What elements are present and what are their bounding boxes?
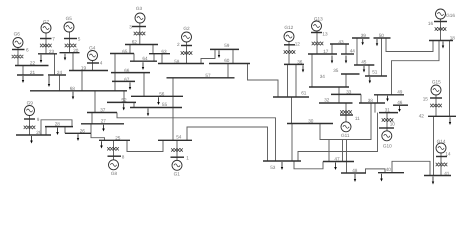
wire line 38-31 <box>374 103 376 113</box>
generator G8 <box>109 160 119 176</box>
generator G16 <box>436 9 456 19</box>
svg-text:68: 68 <box>70 86 76 91</box>
wire line 18-50 <box>386 38 433 52</box>
svg-text:37: 37 <box>100 108 106 113</box>
svg-text:20: 20 <box>73 48 79 53</box>
svg-text:11: 11 <box>355 116 360 121</box>
generator G11 <box>341 122 351 138</box>
load arrow bus 64 <box>142 62 144 70</box>
bus 20 <box>60 52 80 54</box>
svg-text:67: 67 <box>124 77 130 82</box>
wire line 59-58 <box>201 49 215 63</box>
wire line 59-60 <box>232 49 234 63</box>
bus 68 <box>30 90 127 92</box>
bus 1 <box>171 156 185 158</box>
generator G3 <box>135 6 145 23</box>
load arrow bus 17 <box>331 56 333 64</box>
svg-text:66: 66 <box>124 68 130 73</box>
svg-text:40: 40 <box>386 167 392 172</box>
transformer T10 <box>382 118 394 121</box>
load arrow bus 50 <box>376 39 378 46</box>
bus 46 <box>393 104 408 106</box>
bus 65 <box>110 53 134 55</box>
generator G7 <box>41 20 51 34</box>
svg-text:63: 63 <box>161 49 167 54</box>
load arrow bus 55 <box>147 109 149 117</box>
svg-text:28: 28 <box>55 121 61 126</box>
generator G12 <box>284 25 294 42</box>
svg-text:43: 43 <box>338 39 344 44</box>
wire gen G3 stem <box>139 23 141 45</box>
svg-text:7: 7 <box>52 37 55 42</box>
wire line 60-57 <box>227 64 229 78</box>
svg-text:26: 26 <box>80 128 86 133</box>
svg-text:53: 53 <box>270 165 276 170</box>
wire line 35-34 <box>345 74 347 87</box>
bus 13 <box>311 32 322 34</box>
load arrow bus 21 <box>22 76 24 83</box>
svg-text:15: 15 <box>423 97 429 102</box>
wire line 57-56-55-54 <box>172 78 174 141</box>
bus 23 <box>38 53 57 55</box>
bus 41 <box>424 175 451 177</box>
bus 30 <box>287 123 333 125</box>
bus 11 <box>340 114 353 116</box>
wire line 62-63 <box>152 45 154 54</box>
wire line 30-53 <box>291 124 293 162</box>
bus 3 <box>132 26 146 28</box>
bus 50 <box>374 37 391 39</box>
bus 60 <box>209 63 250 65</box>
wire gen G13 stem <box>316 31 318 54</box>
bus 66 <box>111 72 150 74</box>
svg-text:50: 50 <box>379 33 385 38</box>
load arrow bus 39 <box>361 39 364 45</box>
svg-text:G9: G9 <box>27 100 34 105</box>
load arrow bus 49 <box>386 96 389 102</box>
transformer T1 <box>171 148 183 151</box>
svg-text:G12: G12 <box>284 25 293 30</box>
bus 5 <box>64 38 77 40</box>
load arrow bus 48 <box>354 174 356 182</box>
svg-text:45: 45 <box>361 59 367 64</box>
bus 54 <box>158 139 192 141</box>
wire line 23-24 <box>54 54 56 75</box>
bus 4 <box>87 62 99 64</box>
generator G10 <box>382 131 392 149</box>
svg-text:16: 16 <box>428 21 434 26</box>
wire line loop-48 <box>346 140 348 174</box>
svg-text:34: 34 <box>320 74 326 79</box>
load arrow bus 52 <box>123 103 126 110</box>
bus 67 <box>112 80 135 82</box>
wire gen G9 stem <box>29 116 31 136</box>
svg-text:18: 18 <box>450 36 456 41</box>
wire line 20-19 <box>72 53 74 71</box>
svg-text:39: 39 <box>361 33 367 38</box>
wire line 22-21 <box>22 66 24 76</box>
load arrow bus 20 <box>64 54 66 61</box>
svg-text:31: 31 <box>385 108 391 113</box>
svg-text:4: 4 <box>100 61 103 66</box>
wire line 25-54 <box>127 140 163 151</box>
svg-text:G15: G15 <box>432 80 441 85</box>
wire line 52-55 <box>133 102 135 107</box>
bus 25 <box>99 139 130 141</box>
bus 44 <box>341 53 354 55</box>
bus 53 <box>263 160 301 162</box>
bus 49 <box>374 94 404 96</box>
wire line 53-47 <box>294 161 323 169</box>
load arrow bus 56 <box>157 97 160 105</box>
svg-text:48: 48 <box>352 168 358 173</box>
wire line 24-68 <box>59 75 61 91</box>
transformer T6 <box>12 55 24 58</box>
wire line 29-28 <box>41 120 72 135</box>
wire line 49-38 <box>377 95 379 103</box>
wire line 37-53 <box>117 113 276 162</box>
bus 22 <box>15 65 49 67</box>
load arrow bus 24 <box>48 76 50 87</box>
bus 37 <box>87 112 117 114</box>
wire line 43-17 <box>331 44 333 54</box>
bus 55 <box>130 107 182 109</box>
svg-text:1: 1 <box>186 155 189 160</box>
load arrow bus 36 <box>302 65 304 72</box>
wire line 31-53 <box>298 113 378 161</box>
bus 12 <box>284 44 295 46</box>
svg-text:G2: G2 <box>183 26 190 31</box>
svg-text:G7: G7 <box>43 20 50 25</box>
bus 8 <box>108 155 122 157</box>
load arrow bus 44 <box>345 56 347 64</box>
bus 6 <box>12 49 25 51</box>
svg-text:51: 51 <box>372 69 378 74</box>
wire gen G16 stem <box>440 19 442 41</box>
svg-text:64: 64 <box>142 56 148 61</box>
svg-text:6: 6 <box>26 47 29 52</box>
wire gen G8 stem <box>113 140 115 160</box>
svg-text:25: 25 <box>115 135 121 140</box>
wire line 30-38 loop <box>320 103 371 140</box>
svg-text:G14: G14 <box>437 139 446 144</box>
wire line 19-68 <box>81 71 83 91</box>
wire line 28-29 <box>45 127 47 135</box>
transformer T11 <box>340 110 352 113</box>
svg-text:59: 59 <box>224 43 230 48</box>
wire line 54-53 <box>187 127 268 161</box>
bus 45 <box>354 64 374 66</box>
load arrow bus 29 <box>30 136 33 144</box>
load arrow bus 41 <box>432 177 434 185</box>
wire line 17-34 <box>311 54 313 87</box>
wire line 65-66-67-68 <box>114 54 116 91</box>
load arrow bus 67 <box>129 82 131 90</box>
bus 7 <box>40 38 52 40</box>
svg-text:32: 32 <box>324 97 330 102</box>
bus 14 <box>436 156 447 158</box>
wire gen G15 stem <box>435 95 437 116</box>
svg-text:36: 36 <box>297 59 303 64</box>
svg-text:5: 5 <box>78 37 81 42</box>
wire line 68-37 <box>94 91 96 113</box>
transformer T9 <box>24 126 36 129</box>
svg-text:44: 44 <box>350 48 356 53</box>
bus 10 <box>379 127 394 129</box>
svg-text:2: 2 <box>177 42 180 47</box>
svg-text:8: 8 <box>122 155 125 160</box>
load arrow bus 25 <box>100 141 103 148</box>
load arrow bus 23 <box>40 55 42 63</box>
wire gen G1 stem <box>176 140 178 160</box>
load arrow bus 18 <box>442 42 444 49</box>
bus 28 <box>45 126 73 128</box>
bus 57 <box>167 77 235 79</box>
bus 58 <box>158 63 204 65</box>
svg-text:G8: G8 <box>111 171 118 176</box>
generator G4 <box>88 45 98 60</box>
svg-text:61: 61 <box>301 91 307 96</box>
svg-text:G3: G3 <box>136 6 143 11</box>
load arrow bus 26 <box>77 134 79 141</box>
svg-text:35: 35 <box>333 68 339 73</box>
svg-text:46: 46 <box>397 100 403 105</box>
bus 21 <box>17 74 44 76</box>
bus 61 <box>273 96 309 98</box>
bus 2 <box>181 45 192 47</box>
wire line loop-47 a <box>328 140 330 162</box>
bus 24 <box>48 74 66 76</box>
bus 48 <box>341 172 366 174</box>
bus 59 <box>210 48 239 50</box>
transformer T8 <box>107 147 119 150</box>
bus 26 <box>65 132 91 134</box>
bus 43 <box>330 43 349 45</box>
load arrow bus 27 <box>102 125 105 132</box>
svg-text:33: 33 <box>346 90 352 95</box>
bus 31 <box>379 112 398 114</box>
wire line 37-27 <box>91 113 93 124</box>
wire line 63-58 <box>161 54 163 64</box>
transformer T12 <box>284 50 296 53</box>
generator G13 <box>312 17 324 32</box>
svg-text:29: 29 <box>36 130 42 135</box>
svg-text:17: 17 <box>323 49 329 54</box>
svg-text:56: 56 <box>159 91 165 96</box>
bus 15 <box>430 97 442 99</box>
generator G1 <box>172 160 182 176</box>
svg-text:G10: G10 <box>383 144 392 149</box>
svg-text:49: 49 <box>397 89 403 94</box>
bus 39 <box>352 37 370 39</box>
svg-text:21: 21 <box>30 70 36 75</box>
load arrow bus 47 <box>334 163 337 171</box>
wire gen G12 stem <box>288 42 290 65</box>
svg-text:41: 41 <box>444 171 450 176</box>
wire line 60-61 <box>248 64 279 98</box>
svg-text:42: 42 <box>419 114 425 119</box>
wire line 43-44 <box>345 44 347 54</box>
transformer T15 <box>430 104 442 107</box>
svg-text:G11: G11 <box>341 133 350 138</box>
svg-text:62: 62 <box>132 40 138 45</box>
load arrow bus 53 <box>281 162 283 170</box>
bus 51 <box>365 75 387 77</box>
wire line 68-52 <box>123 91 125 103</box>
transformer T14 <box>436 163 448 166</box>
bus 36 <box>284 63 304 65</box>
svg-text:10: 10 <box>390 122 396 127</box>
bus 18 <box>429 40 453 42</box>
bus 29 <box>16 134 51 136</box>
bus 19 <box>69 70 108 72</box>
wire gen G4 stem <box>92 61 94 71</box>
wire line 18-49 <box>392 41 440 95</box>
generator G2 <box>182 26 192 42</box>
bus 16 <box>434 21 447 23</box>
bus 47 <box>323 161 354 163</box>
svg-text:19: 19 <box>81 66 87 71</box>
load arrow bus 40 <box>380 174 383 182</box>
transformer T5 <box>65 44 77 47</box>
svg-text:60: 60 <box>224 58 230 63</box>
wire gen G10 stem <box>386 113 388 131</box>
svg-text:12: 12 <box>295 42 301 47</box>
wire line loop-47 b <box>342 140 344 162</box>
bus 38 <box>359 102 385 104</box>
transformer T3 <box>134 32 146 35</box>
svg-text:G1: G1 <box>174 172 181 177</box>
svg-text:13: 13 <box>322 32 328 37</box>
svg-text:G16: G16 <box>446 13 455 18</box>
svg-text:3: 3 <box>129 25 132 30</box>
svg-text:65: 65 <box>122 49 128 54</box>
svg-text:54: 54 <box>176 135 182 140</box>
svg-text:38: 38 <box>368 98 374 103</box>
wire line 65-64 <box>133 54 135 62</box>
wire line 66-56 <box>143 73 145 97</box>
bus 42 <box>428 115 456 117</box>
load arrow bus 51 <box>369 77 372 84</box>
transformer T7 <box>40 44 52 47</box>
bus 56 <box>131 95 183 97</box>
transformer T16 <box>435 27 447 30</box>
wire line 28-26 <box>64 127 66 134</box>
wire line 50-51 <box>381 38 383 76</box>
wire line 61-30 <box>291 97 293 124</box>
svg-text:58: 58 <box>174 59 180 64</box>
wire line 36-61 a <box>287 64 289 97</box>
wire line 27-26 <box>90 124 92 134</box>
svg-text:14: 14 <box>445 151 451 156</box>
svg-text:9: 9 <box>37 117 40 122</box>
transformer T2 <box>181 51 193 54</box>
wire gen G5 stem <box>69 32 71 53</box>
bus 62 <box>125 44 158 46</box>
load arrow bus 68 <box>72 92 74 100</box>
wire gen G6 stem <box>17 47 19 65</box>
svg-text:57: 57 <box>205 73 211 78</box>
bus 33 <box>331 93 361 95</box>
load arrow bus 28 <box>56 128 59 135</box>
svg-text:47: 47 <box>334 156 340 161</box>
svg-text:G4: G4 <box>89 45 96 50</box>
transformer T13 <box>312 42 324 45</box>
load arrow bus 45 <box>363 66 365 73</box>
svg-text:55: 55 <box>162 102 168 107</box>
generator G9 <box>25 100 35 115</box>
wire line 39-45 <box>356 38 358 65</box>
wire line 40-41 <box>392 161 430 175</box>
bus 34 <box>309 86 349 88</box>
wire line 63-64 <box>153 54 155 62</box>
bus 63 <box>149 53 170 55</box>
wire gen G7 stem <box>45 33 47 54</box>
svg-text:27: 27 <box>101 119 107 124</box>
wire line 34-33 <box>338 87 340 94</box>
load arrow bus 59 <box>218 50 220 58</box>
svg-text:G13: G13 <box>314 17 323 22</box>
svg-text:23: 23 <box>49 49 55 54</box>
wire gen G2 stem <box>186 42 188 64</box>
bus 9 <box>24 118 35 120</box>
wire gen G14 stem <box>440 153 442 176</box>
generator G5 <box>64 16 74 32</box>
bus 32 <box>319 102 353 104</box>
svg-text:G6: G6 <box>14 32 21 37</box>
bus 52 <box>107 101 136 103</box>
generator G15 <box>431 80 441 96</box>
generator G6 <box>13 32 23 48</box>
svg-text:52: 52 <box>121 97 127 102</box>
wire line 33-32 <box>338 94 340 103</box>
load arrow bus 46 <box>398 106 401 112</box>
generator G14 <box>436 139 446 153</box>
bus 17 <box>308 53 337 55</box>
bus 35 <box>341 73 360 75</box>
bus 27 <box>81 123 124 125</box>
load arrow bus 42 <box>449 117 451 125</box>
wire line 42-41 <box>433 116 435 175</box>
wire line 18-42 <box>449 41 451 117</box>
svg-text:G5: G5 <box>66 16 73 21</box>
wire line 48-40 <box>366 169 386 173</box>
svg-text:30: 30 <box>308 119 314 124</box>
wire line 62-65 <box>129 45 131 54</box>
svg-text:22: 22 <box>30 60 36 65</box>
svg-text:24: 24 <box>57 70 63 75</box>
wire line 33-38 <box>360 94 362 103</box>
bus 40 <box>378 172 404 174</box>
wire line 36-61 b <box>295 64 297 97</box>
wire line 26-25 <box>91 133 105 140</box>
wire gen G11 stem <box>345 103 347 122</box>
wire line 45-51 <box>368 65 370 76</box>
bus 64 <box>130 60 157 62</box>
